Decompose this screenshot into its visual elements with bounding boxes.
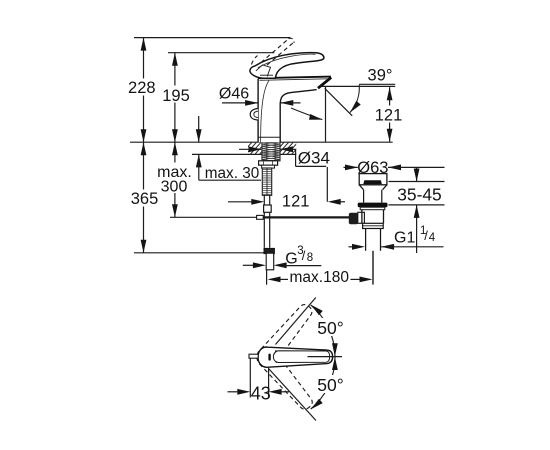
shank locknut below deck bbox=[259, 161, 278, 165]
svg-text:4: 4 bbox=[429, 232, 436, 244]
dimension 195 bbox=[162, 53, 190, 143]
hose end tube (3/8) bbox=[266, 253, 274, 270]
swing arc bbox=[311, 305, 335, 409]
valve stub at left bbox=[249, 354, 258, 358]
thin outlet pipe bbox=[372, 251, 374, 285]
svg-text:Ø63: Ø63 bbox=[357, 159, 388, 177]
body interior contour bbox=[261, 81, 269, 143]
svg-text:43: 43 bbox=[251, 383, 271, 403]
svg-text:G1: G1 bbox=[394, 230, 415, 247]
arc to vertical axis bbox=[291, 108, 322, 120]
svg-text:300: 300 bbox=[161, 178, 188, 195]
drain body bbox=[361, 210, 363, 224]
svg-text:/: / bbox=[424, 228, 428, 243]
svg-text:121: 121 bbox=[282, 192, 310, 210]
faucet threaded mounting shank through deck bbox=[262, 142, 280, 162]
svg-text:35-45: 35-45 bbox=[397, 184, 441, 204]
wire: deck top reference line bbox=[130, 141, 393, 143]
svg-text:365: 365 bbox=[131, 190, 159, 208]
dimension max.180 bbox=[268, 269, 373, 286]
svg-text:Ø34: Ø34 bbox=[298, 149, 330, 168]
dimension max. 300 bbox=[157, 142, 192, 217]
label G 3/8 bbox=[243, 245, 321, 268]
base plate line bbox=[258, 136, 280, 138]
svg-text:195: 195 bbox=[162, 87, 190, 105]
solid handle (lever) bbox=[250, 53, 324, 79]
tailpipe G1 1/4 bbox=[365, 229, 367, 251]
dimension Ø63 bbox=[344, 159, 445, 177]
handle centerline bbox=[308, 356, 343, 358]
dimension 43 bbox=[228, 359, 290, 404]
deck slab with hatch bbox=[240, 141, 308, 156]
outlet plane extension line bbox=[320, 85, 395, 87]
dimension 121 (below deck, horizontal) bbox=[228, 192, 345, 210]
DRAIN / POP-UP WASTE ASSEMBLY bbox=[349, 174, 388, 285]
horizontal pop-up rod to drain bbox=[170, 216, 257, 218]
supply hose tube below braid bbox=[263, 195, 265, 248]
dashed handle rotated -50 (down) bbox=[253, 344, 317, 414]
spout outlet axis extension line bbox=[325, 87, 327, 142]
dimension 39° angle annotation bbox=[291, 67, 395, 123]
39 deg shelf line bbox=[359, 83, 395, 85]
svg-text:Ø46: Ø46 bbox=[219, 85, 249, 102]
wire: top extension line (dashed-handle top level, 228 ref) bbox=[134, 37, 290, 39]
svg-text:max. 30: max. 30 bbox=[205, 165, 259, 182]
svg-text:121: 121 bbox=[375, 107, 403, 125]
50 degree rays bbox=[276, 298, 316, 345]
arc from shelf to stream bbox=[350, 85, 359, 113]
svg-text:228: 228 bbox=[128, 79, 156, 97]
spout tip chamfer (aerator face) bbox=[318, 77, 331, 88]
svg-text:G: G bbox=[285, 250, 297, 267]
dimension 228 bbox=[128, 38, 156, 143]
faucet body and spout (solid) bbox=[250, 77, 331, 143]
dashed raised handle position bbox=[252, 38, 295, 65]
lower nut bbox=[363, 223, 384, 228]
pop-up rod knob at drain bbox=[349, 213, 358, 224]
dimension Ø46 bbox=[219, 85, 301, 106]
wire: deck bottom extension line bbox=[192, 153, 296, 155]
label G1 1/4 bbox=[349, 225, 444, 250]
spout top edge bbox=[258, 77, 331, 79]
drain upper bell (Ø63) bbox=[359, 174, 387, 185]
water stream direction line bbox=[325, 88, 353, 116]
extension line below hose end (max.180 left ref) bbox=[266, 270, 268, 285]
svg-text:39°: 39° bbox=[368, 67, 393, 85]
dimension 35-45 bbox=[389, 167, 445, 253]
dimension max. 30 (deck thickness) bbox=[196, 116, 261, 182]
braided supply hoses bbox=[262, 168, 272, 195]
flange seal bbox=[358, 203, 388, 208]
pop-up rod pivot block on hose column bbox=[264, 205, 272, 212]
solid handle top view bbox=[258, 347, 333, 367]
svg-text:max.180: max.180 bbox=[290, 269, 350, 286]
svg-text:8: 8 bbox=[307, 252, 313, 264]
dimension 121 (right, vertical spout height) bbox=[375, 87, 403, 142]
svg-text:50°: 50° bbox=[317, 375, 343, 395]
dashed handle rotated +50 (up) bbox=[254, 300, 318, 370]
wire: extension line (solid-handle top level, 195 ref) bbox=[168, 52, 274, 54]
G 3/8 hose connector nut bbox=[264, 248, 274, 253]
shank washer bbox=[262, 165, 275, 168]
dimension Ø34 bbox=[239, 146, 330, 167]
pop-up knob at rear of body bbox=[250, 109, 258, 121]
dimension 365 bbox=[131, 142, 159, 253]
svg-text:/: / bbox=[302, 248, 306, 263]
wire: hose-end reference line (365 bottom) bbox=[134, 252, 265, 254]
svg-text:50°: 50° bbox=[317, 318, 343, 338]
